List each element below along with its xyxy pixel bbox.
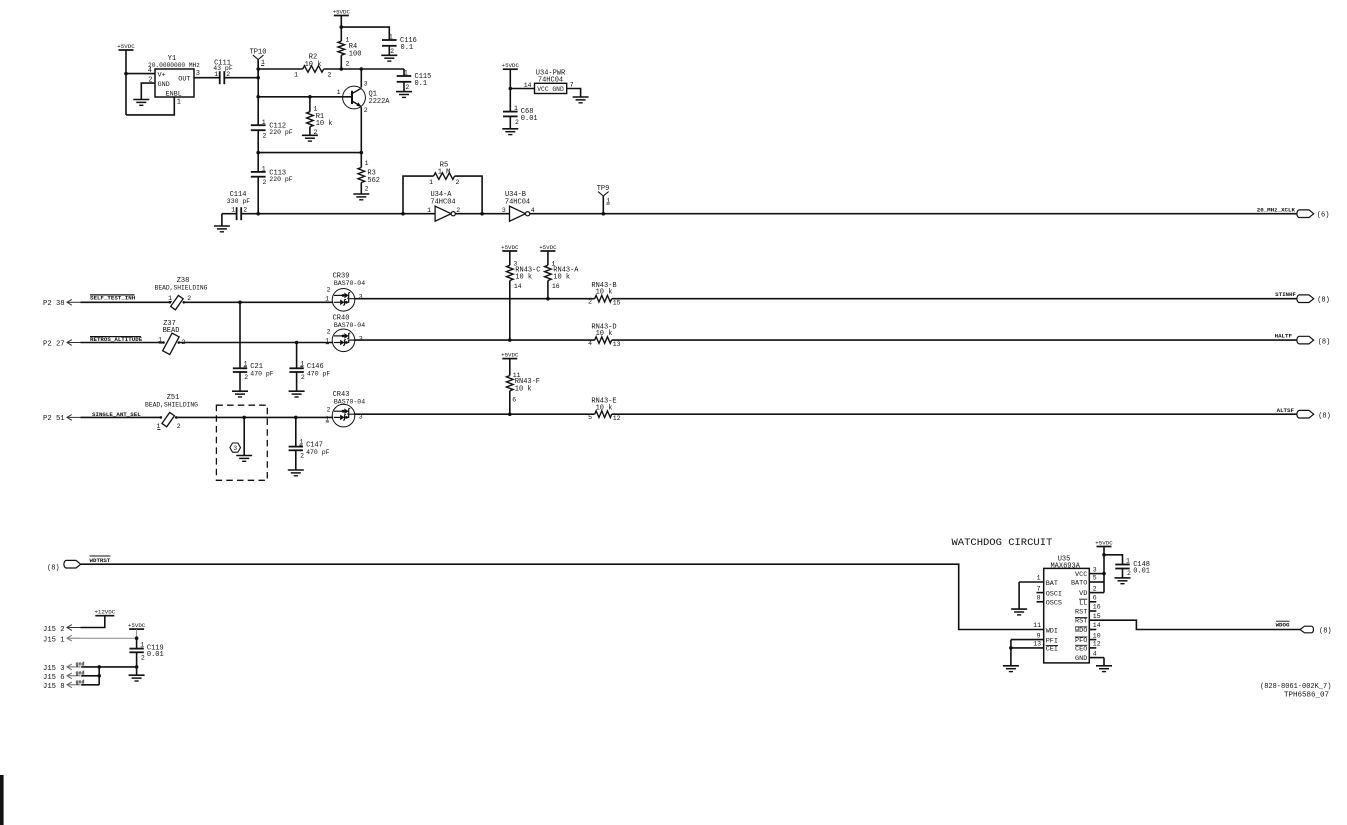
pin 7 (U35 OSCI)	[1037, 585, 1063, 598]
inverter U34-B 74HC04	[505, 191, 530, 221]
svg-text:1: 1	[262, 166, 266, 173]
svg-text:+5VDC: +5VDC	[333, 8, 351, 15]
ground (U34-PWR)	[573, 97, 589, 103]
svg-text:10 k: 10 k	[596, 289, 613, 297]
svg-text:J15 6: J15 6	[43, 674, 65, 682]
svg-text:0.01: 0.01	[521, 115, 538, 123]
svg-text:BEAD,SHIELDING: BEAD,SHIELDING	[145, 401, 198, 408]
svg-text:16: 16	[1093, 604, 1101, 611]
pin 3 (CR39)	[359, 294, 363, 301]
svg-text:0.1: 0.1	[401, 44, 414, 52]
connector P2 38	[43, 299, 81, 308]
svg-text:2: 2	[327, 329, 331, 336]
svg-text:1: 1	[262, 119, 266, 126]
svg-text:V+: V+	[158, 71, 166, 79]
power +5VDC (RN43-C)	[501, 244, 519, 265]
wire base	[258, 96, 352, 98]
svg-text:WATCHDOG CIRCUIT: WATCHDOG CIRCUIT	[952, 537, 1053, 549]
svg-text:2: 2	[365, 185, 369, 192]
pin 2 (Q1 emitter)	[364, 107, 368, 114]
junction	[340, 25, 344, 29]
pin 3 (U35 VCC)	[1075, 566, 1104, 579]
connector J15 8	[43, 679, 85, 691]
svg-text:2: 2	[364, 107, 368, 114]
svg-text:2: 2	[328, 72, 332, 79]
svg-text:WDOG: WDOG	[1276, 622, 1290, 629]
svg-text:GND: GND	[158, 81, 170, 89]
svg-text:VCC GND: VCC GND	[537, 86, 564, 93]
junction	[508, 412, 512, 416]
wire Z37 to CR40	[179, 342, 333, 344]
diode CR39 BAS70-04	[332, 273, 365, 311]
ground (U35 PFI/CEI)	[1003, 640, 1019, 672]
transistor Q1 2222A	[343, 86, 391, 109]
pin 3 (CR43)	[359, 414, 363, 421]
svg-text:ALTSF: ALTSF	[1277, 407, 1295, 414]
wire J15-8 row	[81, 684, 99, 686]
pin 4 (Y1 V+)	[148, 67, 152, 75]
svg-text:2: 2	[177, 423, 181, 430]
svg-text:(8): (8)	[1318, 338, 1331, 346]
svg-text:2: 2	[1127, 570, 1131, 577]
pin 1 (U34-A in)	[427, 207, 431, 214]
wire to C114	[222, 213, 237, 215]
svg-text:3: 3	[502, 207, 506, 214]
wire J15-3 row	[81, 666, 136, 668]
capacitor C119 0.01	[129, 638, 163, 661]
pin 4 (U35 GND)	[1075, 650, 1104, 663]
svg-text:RST: RST	[1075, 618, 1087, 626]
svg-text:0.01: 0.01	[147, 651, 164, 659]
svg-text:4: 4	[588, 340, 592, 347]
svg-text:SELF_TEST_INH: SELF_TEST_INH	[90, 295, 136, 302]
junction	[1009, 646, 1013, 650]
svg-text:+5VDC: +5VDC	[501, 351, 519, 358]
wire J15-6 row	[81, 675, 99, 677]
svg-text:2: 2	[141, 655, 145, 662]
svg-text:14: 14	[524, 82, 532, 89]
resistor RN43-F 10 k	[507, 372, 541, 414]
svg-text:VD: VD	[1079, 590, 1087, 598]
wire CR43 to RN43-E	[355, 413, 595, 415]
wire collector node	[341, 68, 404, 70]
svg-text:PFO: PFO	[1075, 637, 1087, 645]
junction	[602, 212, 606, 216]
note 3 shield box	[216, 405, 267, 480]
ground (C147)	[288, 450, 304, 476]
junction	[340, 67, 344, 71]
power +5VDC (U35)	[1095, 539, 1113, 592]
wire P2-38 row	[81, 301, 170, 303]
junction	[256, 151, 260, 155]
power +5VDC (RN43-A)	[539, 244, 557, 265]
svg-text:LL: LL	[1079, 599, 1087, 607]
wire V+ to Y1	[126, 73, 155, 75]
svg-text:PFI: PFI	[1046, 637, 1058, 645]
text drawing number	[1260, 683, 1331, 691]
node ALTSF	[1277, 407, 1331, 421]
pin 1 (Q1 base)	[337, 89, 341, 96]
connector J15 6	[43, 670, 85, 682]
svg-text:2: 2	[301, 374, 305, 381]
svg-text:15: 15	[1093, 613, 1101, 620]
svg-text:BEAD,SHIELDING: BEAD,SHIELDING	[155, 285, 208, 292]
pin 1 (Z37)	[158, 337, 162, 344]
pin 14 (U34 VCC)	[524, 82, 532, 89]
wire Y1 ENBL loop	[126, 97, 174, 115]
svg-text:BAS70-04: BAS70-04	[334, 398, 365, 405]
pin 14 (U35 WDO)	[1075, 622, 1101, 635]
svg-text:220 pF: 220 pF	[269, 129, 293, 136]
pin 3 (CR40)	[359, 335, 363, 342]
resistor R2 10 k	[294, 54, 331, 79]
svg-text:2: 2	[1093, 585, 1097, 592]
junction	[135, 665, 139, 669]
junction	[401, 212, 405, 216]
pin 1 (CR39)	[325, 296, 329, 303]
svg-text:1: 1	[261, 59, 265, 66]
ground (C119)	[129, 667, 145, 681]
svg-text:2: 2	[346, 61, 350, 68]
wire P2-51 row	[81, 416, 161, 418]
pin 2 (CR39)	[327, 287, 331, 294]
net SINGLE_ANT_SEL	[92, 411, 141, 418]
power +5VDC (RN43-F)	[501, 351, 519, 375]
wire RN43-D to HALTF	[612, 339, 1298, 341]
junction	[308, 95, 312, 99]
oscillator Y1 20.0000000 MHz	[148, 55, 200, 98]
resistor RN43-B 10 k	[588, 282, 621, 307]
wire Z38 to CR39	[184, 301, 333, 303]
svg-text:3: 3	[359, 294, 363, 301]
wire RN43-B to STINHF	[612, 298, 1298, 300]
svg-text:BEAD: BEAD	[163, 327, 180, 335]
pin 2 (Z37)	[182, 339, 186, 346]
pin 12 (U35 CEO)	[1075, 641, 1101, 654]
pin 2 (CR40)	[327, 329, 331, 336]
ground (C115)	[396, 82, 412, 98]
svg-text:STINHF: STINHF	[1275, 291, 1296, 298]
svg-text:BAS70-04: BAS70-04	[334, 280, 365, 287]
svg-text:10 k: 10 k	[515, 274, 532, 282]
svg-text:J15 1: J15 1	[43, 636, 65, 644]
junction	[509, 87, 513, 91]
svg-text:2: 2	[588, 298, 592, 305]
pin 9 (U35 PFI)	[1011, 632, 1058, 645]
net SELF_TEST_INH	[90, 295, 136, 302]
wire WDTRST to WDI	[81, 564, 1044, 629]
svg-text:+12VDC: +12VDC	[94, 609, 115, 616]
junction	[242, 416, 246, 420]
svg-text:4: 4	[148, 67, 152, 75]
node STINHF	[1275, 291, 1330, 304]
capacitor C112 220 pF	[251, 119, 293, 139]
svg-text:1: 1	[294, 72, 298, 79]
svg-text:J15 8: J15 8	[43, 683, 65, 691]
wire C119 to gnd row	[136, 652, 138, 667]
ground (R1)	[302, 135, 318, 141]
wire to R2	[258, 68, 303, 70]
svg-text:P2 38: P2 38	[43, 300, 65, 308]
svg-text:4: 4	[1093, 650, 1097, 657]
svg-text:+5VDC: +5VDC	[539, 244, 557, 251]
pin 1 (Z51)	[156, 423, 160, 430]
svg-text:10 k: 10 k	[515, 386, 532, 394]
svg-text:8: 8	[1037, 595, 1041, 602]
svg-text:13: 13	[613, 341, 621, 348]
wire CR39 to RN43-B	[355, 298, 595, 300]
resistor R4 100	[338, 27, 361, 69]
svg-text:BATO: BATO	[1071, 580, 1087, 588]
svg-text:562: 562	[367, 177, 380, 185]
capacitor C147 470 pF	[289, 417, 330, 459]
junction	[256, 212, 260, 216]
svg-text:P2 27: P2 27	[43, 340, 65, 348]
svg-text:OSCS: OSCS	[1046, 600, 1062, 608]
svg-text:13: 13	[1033, 641, 1041, 648]
pin 2 (U34-A out)	[456, 207, 460, 214]
svg-text:1: 1	[404, 70, 408, 77]
pin 2 (Y1 GND)	[148, 77, 152, 85]
power +5VDC (R4 top)	[333, 8, 351, 27]
wire Y1 GND	[141, 83, 155, 99]
test point TP10	[250, 49, 267, 78]
pin 2 (Z38)	[187, 295, 191, 302]
pin 1 (Z38)	[168, 295, 172, 302]
wire U34 GND	[567, 89, 581, 98]
svg-text:1: 1	[427, 207, 431, 214]
svg-text:1: 1	[231, 207, 235, 214]
svg-text:0.1: 0.1	[415, 80, 428, 88]
svg-text:1: 1	[214, 71, 218, 78]
svg-text:5: 5	[1093, 575, 1097, 582]
wire	[257, 177, 259, 214]
svg-text:+5VDC: +5VDC	[128, 622, 146, 629]
svg-text:(6): (6)	[1317, 211, 1330, 219]
svg-text:20_MHz_XCLK: 20_MHz_XCLK	[1257, 206, 1296, 213]
ground (C148)	[1115, 569, 1131, 584]
svg-text:10 k: 10 k	[596, 330, 613, 338]
resistor RN43-D 10 k	[588, 324, 621, 349]
pin 13 (U35 CEI)	[1011, 641, 1058, 654]
svg-text:3: 3	[1093, 566, 1097, 573]
svg-text:1: 1	[1037, 575, 1041, 582]
svg-text:+5VDC: +5VDC	[1095, 539, 1113, 546]
svg-text:(8): (8)	[47, 564, 60, 572]
svg-text:2: 2	[244, 374, 248, 381]
pin 11 (U35 WDI)	[1033, 622, 1058, 635]
wire osc divider	[257, 59, 259, 125]
svg-text:GND: GND	[1075, 655, 1087, 663]
wire between inverters	[455, 213, 509, 215]
resistor R3 562	[358, 160, 380, 194]
svg-text:(8): (8)	[1317, 296, 1330, 304]
svg-text:VCC: VCC	[1075, 571, 1087, 579]
junction	[238, 301, 242, 305]
wire gnd bus	[98, 667, 100, 685]
svg-text:100: 100	[349, 50, 362, 58]
svg-text:7: 7	[570, 82, 574, 89]
inverter U34-A 74HC04	[430, 191, 455, 221]
junction	[256, 67, 260, 71]
power +5VDC (U34-PWR)	[502, 62, 520, 112]
pin 2 (U35 VD)	[1079, 585, 1104, 598]
svg-text:1: 1	[429, 179, 433, 186]
node WDTRST input	[47, 560, 81, 572]
svg-text:2: 2	[243, 207, 247, 214]
svg-text:2: 2	[327, 407, 331, 414]
svg-text:WDO: WDO	[1075, 627, 1087, 635]
svg-text:14: 14	[514, 283, 522, 290]
svg-text:J15 2: J15 2	[43, 626, 65, 634]
svg-text:WDI: WDI	[1046, 627, 1058, 635]
resistor RN43-E 10 k	[588, 398, 621, 422]
resistor RN43-A 10 k	[545, 260, 580, 298]
wire collector	[360, 69, 362, 88]
capacitor C111 43 pF	[213, 59, 233, 84]
resistor R5 1 M feedback	[403, 161, 482, 213]
wire R2 to R4 node	[324, 68, 342, 70]
svg-text:BAT: BAT	[1046, 580, 1058, 588]
wire J15-2 to +12VDC	[81, 616, 105, 628]
capacitor C115 0.1	[397, 70, 432, 91]
ferrite bead Z51	[145, 394, 198, 427]
svg-text:TPH6586_07: TPH6586_07	[1284, 691, 1329, 699]
pin 4 (U34-B out)	[531, 207, 535, 214]
svg-text:1: 1	[365, 160, 369, 167]
junction	[508, 338, 512, 342]
capacitor C116 0.1	[382, 34, 417, 55]
svg-text:10 k: 10 k	[305, 61, 322, 69]
junction	[135, 636, 139, 640]
wire emitter row	[258, 152, 361, 154]
pin 3 (Y1 OUT)	[196, 70, 200, 78]
node HALTF	[1275, 333, 1331, 347]
pin 1 (CR43)	[325, 416, 329, 423]
note hexagon 3	[230, 443, 241, 452]
connector J15 1	[43, 635, 81, 644]
junction	[1102, 553, 1106, 557]
svg-text:11: 11	[1033, 622, 1041, 629]
svg-text:2222A: 2222A	[369, 98, 391, 106]
svg-text:OSCI: OSCI	[1046, 591, 1062, 599]
ground (U35 BAT)	[1011, 582, 1027, 615]
pin 2 (Z51)	[177, 423, 181, 430]
ground (R3)	[353, 194, 369, 200]
svg-text:14: 14	[1093, 622, 1101, 629]
svg-text:+5VDC: +5VDC	[502, 62, 520, 69]
wire osc output row	[241, 213, 435, 215]
wire C111 to node	[224, 77, 258, 79]
svg-text:20.0000000 MHz: 20.0000000 MHz	[148, 62, 200, 69]
power +12VDC	[94, 609, 115, 616]
junction	[1102, 572, 1106, 576]
svg-text:15: 15	[613, 300, 621, 307]
wire	[257, 130, 259, 172]
junction	[546, 297, 550, 301]
connector P2 27	[43, 340, 81, 349]
capacitor C21 470 pF	[233, 302, 274, 381]
capacitor C114 330 pF	[227, 191, 251, 220]
svg-text:330 pF: 330 pF	[227, 198, 251, 205]
svg-text:HALTF: HALTF	[1275, 333, 1293, 340]
node 20_MHz_XCLK	[1257, 206, 1330, 219]
svg-text:74HC04: 74HC04	[430, 198, 455, 206]
junction	[360, 151, 364, 155]
svg-text:(8): (8)	[1319, 628, 1332, 636]
svg-text:2: 2	[263, 132, 267, 139]
svg-text:74HC04: 74HC04	[505, 198, 530, 206]
wire emitter	[360, 107, 362, 167]
svg-text:TP9: TP9	[597, 185, 610, 193]
junction	[295, 341, 299, 345]
svg-text:1: 1	[177, 99, 181, 107]
diode CR40 BAS70-04	[332, 315, 365, 352]
capacitor C146 470 pF	[289, 343, 330, 382]
svg-text:10 k: 10 k	[553, 274, 570, 282]
pin 10 (U35 PFO)	[1075, 632, 1101, 645]
junction V+ node	[124, 72, 128, 76]
junction	[480, 212, 484, 216]
svg-text:0.01: 0.01	[1133, 567, 1150, 575]
connector P2 51	[43, 415, 81, 424]
svg-text:6: 6	[1093, 595, 1097, 602]
resistor R1 10 k	[307, 97, 333, 136]
pin 6 (U35 LL)	[1079, 595, 1097, 608]
text sheet id	[1284, 691, 1329, 699]
svg-text:74HC04: 74HC04	[538, 77, 563, 85]
wire RN43-E to ALTSF	[612, 413, 1298, 415]
node WDOG output	[1276, 621, 1332, 635]
svg-text:BAS70-04: BAS70-04	[334, 322, 365, 329]
svg-text:9: 9	[1037, 632, 1041, 639]
svg-text:220 pF: 220 pF	[269, 176, 293, 183]
ground (Y1 GND)	[133, 100, 149, 106]
svg-text:12: 12	[613, 415, 621, 422]
black edge marker	[0, 775, 4, 825]
pin 1 (CR40)	[325, 337, 329, 344]
pin 16 (U35 RST)	[1075, 604, 1101, 617]
junction	[360, 67, 364, 71]
power +5VDC (J15)	[128, 622, 146, 638]
junction	[256, 95, 260, 99]
svg-text:CEO: CEO	[1075, 645, 1087, 653]
junction	[97, 665, 101, 669]
svg-text:J15 3: J15 3	[43, 665, 65, 673]
pin 5 (U35 BATO)	[1071, 575, 1104, 588]
connector J15 3	[43, 661, 85, 673]
wire P2-27 row	[81, 342, 164, 344]
ground (C68)	[502, 116, 518, 134]
svg-text:10 k: 10 k	[316, 120, 333, 128]
svg-text:3: 3	[364, 81, 368, 88]
svg-text:2: 2	[300, 452, 304, 459]
ground (C146)	[289, 372, 305, 397]
svg-text:+5VDC: +5VDC	[117, 43, 135, 50]
svg-text:MAX693A: MAX693A	[1050, 562, 1080, 570]
svg-text:CEI: CEI	[1046, 646, 1058, 654]
svg-text:(828-8061-002K_7): (828-8061-002K_7)	[1260, 683, 1331, 691]
svg-text:1: 1	[314, 106, 318, 113]
svg-text:TP10: TP10	[250, 49, 267, 57]
svg-text:SINGLE_ANT_SEL: SINGLE_ANT_SEL	[92, 411, 141, 418]
svg-text:1 M: 1 M	[438, 168, 451, 176]
svg-text:7: 7	[1037, 585, 1041, 592]
wire to U34-PWR	[510, 88, 534, 90]
wire to C148	[1104, 555, 1123, 565]
diode CR43 BAS70-04	[332, 391, 365, 427]
svg-text:P2 51: P2 51	[43, 415, 65, 423]
